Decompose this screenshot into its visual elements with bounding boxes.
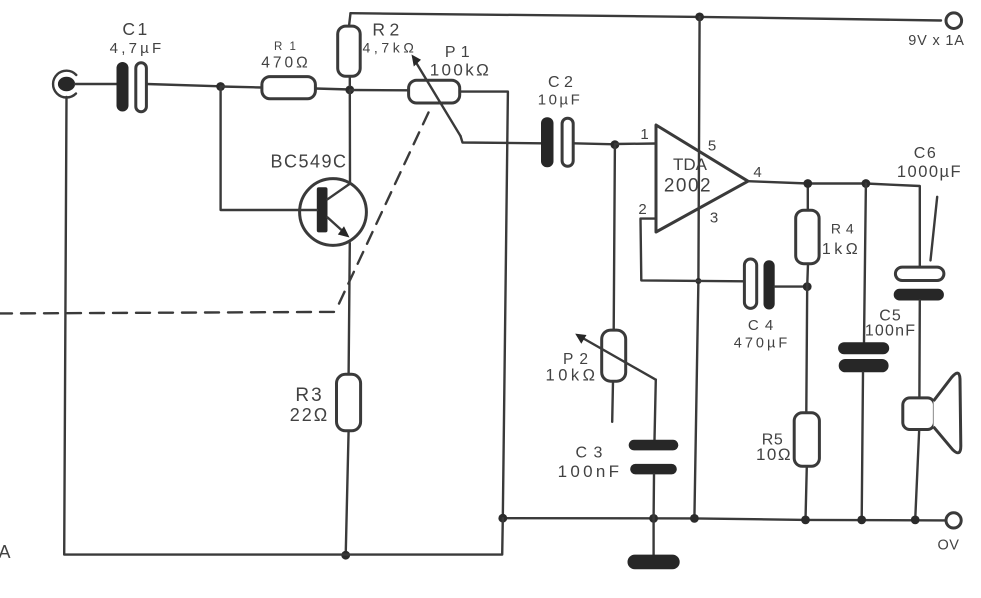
svg-text:2: 2 — [638, 201, 646, 218]
node ground R5 — [801, 516, 810, 525]
svg-text:4,7µF: 4,7µF — [110, 40, 165, 57]
capacitor C3 — [629, 440, 679, 475]
transistor Q1 BC549C — [300, 179, 367, 246]
svg-text:10Ω: 10Ω — [756, 445, 792, 464]
wire ground rail — [503, 518, 946, 520]
svg-text:1kΩ: 1kΩ — [822, 241, 861, 258]
wire bottom return — [64, 97, 503, 555]
svg-text:BC549C: BC549C — [270, 152, 347, 172]
capacitor C4 — [744, 259, 774, 310]
node ground speaker — [911, 516, 920, 525]
wire C3 to ground rail — [652, 474, 655, 518]
capacitor C5 — [838, 342, 889, 372]
node ground C3 — [649, 514, 658, 523]
wire R1 to collector node — [315, 89, 350, 90]
wire pin 1 stub — [615, 142, 656, 145]
wire output pin 4 — [748, 181, 920, 267]
node ground P1 — [498, 514, 507, 523]
wire C2 to pin1 node — [573, 143, 615, 144]
svg-text:22Ω: 22Ω — [290, 405, 329, 425]
svg-text:1: 1 — [640, 126, 648, 143]
svg-text:C 4: C 4 — [748, 317, 774, 334]
wire node to R1 — [221, 87, 262, 88]
dashed line adjust indicator horizontal — [0, 312, 334, 314]
dashed line adjust indicator diagonal — [336, 113, 429, 311]
wire node to P1 — [350, 89, 409, 92]
svg-text:A: A — [0, 542, 11, 562]
svg-text:4,7kΩ: 4,7kΩ — [363, 40, 418, 56]
svg-text:470µF: 470µF — [734, 336, 790, 352]
svg-text:100kΩ: 100kΩ — [430, 61, 492, 80]
wire emitter to R3 — [349, 243, 350, 374]
speaker LS1 — [903, 373, 961, 453]
potentiometer P2 — [575, 145, 656, 422]
svg-text:10µF: 10µF — [538, 92, 583, 109]
node ground C5 — [857, 516, 866, 525]
svg-text:100nF: 100nF — [865, 323, 916, 340]
wire C5 to ground rail — [862, 372, 863, 520]
op-amp U1 TDA2002 — [656, 125, 748, 232]
wire C4 to feedback node — [775, 285, 808, 287]
wire input jack to C1 — [75, 83, 117, 85]
node base junction — [216, 82, 225, 91]
svg-text:P 1: P 1 — [445, 44, 470, 61]
node feedback junction — [803, 282, 812, 291]
terminal 0V — [946, 513, 961, 528]
wire ground stub below rail — [652, 518, 654, 554]
node supply rail junction — [695, 13, 704, 22]
wire base — [221, 87, 317, 211]
svg-text:4: 4 — [753, 164, 761, 181]
svg-text:R 4: R 4 — [831, 220, 854, 236]
wire P1 wiper to C2 — [461, 136, 542, 143]
svg-text:100nF: 100nF — [558, 462, 623, 481]
node pin1 junction — [611, 140, 620, 149]
resistor R1 — [262, 77, 316, 99]
svg-text:R2: R2 — [372, 20, 403, 40]
svg-text:10kΩ: 10kΩ — [546, 367, 599, 385]
wire C1 to base node — [147, 84, 221, 86]
svg-text:R3: R3 — [295, 385, 323, 406]
svg-text:C 2: C 2 — [548, 74, 573, 91]
wire top supply rail — [351, 13, 942, 20]
leader line C6 — [931, 197, 938, 261]
svg-text:C1: C1 — [122, 19, 149, 39]
wire P1 right terminal down to ground rail — [460, 92, 508, 519]
node ground tab — [690, 514, 699, 523]
capacitor C1 — [117, 62, 147, 112]
svg-text:TDA: TDA — [673, 155, 708, 174]
wire supply tab vertical line — [694, 17, 699, 519]
svg-text:OV: OV — [938, 538, 960, 554]
svg-text:3: 3 — [710, 210, 718, 227]
wire P2 wiper to C3 — [655, 380, 656, 440]
input jack J1 — [53, 71, 76, 98]
svg-text:R 1: R 1 — [274, 41, 298, 53]
wire C6 to speaker — [918, 301, 921, 398]
svg-text:C 3: C 3 — [576, 445, 604, 462]
svg-text:2002: 2002 — [664, 176, 712, 197]
resistor R2 — [338, 13, 361, 86]
wire C5 branch — [864, 184, 866, 343]
wire collector — [349, 90, 352, 184]
svg-text:1000µF: 1000µF — [897, 163, 962, 181]
svg-text:470Ω: 470Ω — [261, 55, 310, 72]
wire speaker to ground rail — [915, 430, 919, 520]
node bottom return — [341, 551, 350, 560]
node output R4 — [803, 179, 812, 188]
capacitor C6 — [894, 267, 944, 300]
junction feedback crossing — [695, 278, 701, 284]
capacitor C2 — [541, 117, 573, 167]
wire pin 2 feedback to C4 — [641, 219, 745, 282]
wire R3 to bottom return — [346, 431, 349, 555]
svg-text:P 2: P 2 — [563, 351, 589, 368]
svg-text:9V x 1A: 9V x 1A — [908, 33, 964, 49]
svg-text:5: 5 — [708, 138, 716, 155]
node output C5 — [862, 179, 871, 188]
ground plate — [628, 555, 680, 570]
resistor R3 — [337, 374, 361, 431]
resistor R4 — [796, 184, 819, 287]
node collector junction — [345, 86, 354, 95]
svg-text:C6: C6 — [914, 145, 937, 162]
resistor R5 — [794, 287, 819, 520]
terminal 9V — [946, 13, 962, 29]
potentiometer P1 — [409, 55, 461, 137]
